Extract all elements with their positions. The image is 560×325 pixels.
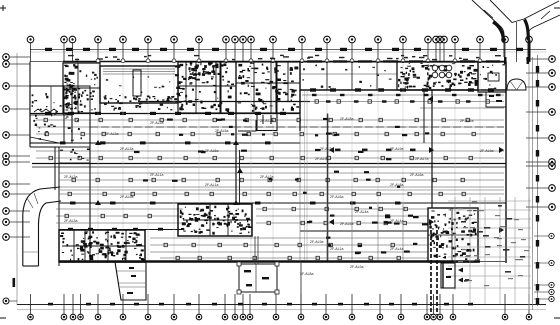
svg-text:2F-AL9a: 2F-AL9a: [310, 240, 323, 244]
protruding room below wall right: [441, 263, 455, 288]
grid bubble T19: [425, 36, 432, 43]
grid bubble T24: [477, 36, 484, 43]
left dimension line: [16, 53, 18, 305]
interior middle double wall y163: [32, 163, 506, 165]
grid bubble B6: [120, 314, 126, 320]
lower hall column lines: [327, 204, 403, 260]
grid bubble B1: [28, 314, 34, 320]
grid bubble R9: [549, 204, 556, 211]
grid bubble B8: [171, 314, 177, 320]
grid bubble R8: [549, 185, 556, 192]
top dimension line: [30, 49, 546, 51]
grid bubble T15: [324, 36, 331, 43]
top-left equipment rooms A: [63, 63, 100, 113]
svg-text:2F-AL9a: 2F-AL9a: [390, 147, 403, 151]
left stair block: [64, 86, 90, 143]
svg-text:2F-AL1a: 2F-AL1a: [150, 173, 163, 177]
grid bubble T23: [452, 36, 459, 43]
interior wall y143: [32, 142, 300, 144]
svg-text:2F-AL6a: 2F-AL6a: [410, 173, 423, 177]
grid bubble L12: [3, 234, 10, 241]
svg-text:2F-AL9a: 2F-AL9a: [315, 157, 328, 161]
grid bubble B13: [247, 314, 253, 320]
bottom dimension line: [17, 304, 546, 306]
column grid lines: [98, 63, 480, 260]
interior wall x432: [431, 90, 433, 208]
svg-text:2F-AL2a: 2F-AL2a: [460, 119, 473, 123]
wall y203 dashes: [70, 202, 401, 205]
top-left large hall B: [100, 66, 178, 103]
tiny annotation labels: [64, 117, 493, 276]
fan circles: [432, 65, 452, 78]
stair N marks: [244, 270, 269, 286]
scattered conduit marks in halls: [134, 118, 429, 254]
wall y143 dashes: [60, 141, 271, 144]
grid bubble T9: [223, 36, 230, 43]
center-bottom dense rooms L: [178, 204, 252, 236]
svg-text:2F-AL3a: 2F-AL3a: [64, 219, 77, 223]
grid bubble L7: [3, 159, 10, 166]
grid bubble B25: [526, 314, 532, 320]
building left wall upper: [29, 62, 31, 148]
grid bubble B20: [424, 314, 430, 320]
top dimension text dashes: [45, 48, 523, 51]
interior wall x327: [327, 114, 329, 262]
grid bubble B3: [70, 314, 76, 320]
svg-text:2F-AL4a: 2F-AL4a: [390, 219, 403, 223]
room protruding below D: [257, 114, 277, 131]
grid bubble L10: [3, 208, 10, 215]
grid bubble B9: [196, 314, 202, 320]
svg-text:2F-AL5a: 2F-AL5a: [215, 129, 228, 133]
grid bubble B23: [450, 314, 456, 320]
left dimension tick: [13, 278, 16, 287]
interior wall y229 left: [59, 229, 183, 231]
svg-text:2F-AL5a: 2F-AL5a: [340, 222, 353, 226]
grid bubble L13: [3, 298, 9, 304]
grid bubble T8: [196, 36, 203, 43]
grid bubble T12: [248, 36, 255, 43]
interior wall x236 duct pair: [235, 114, 237, 206]
grid bubble L4: [3, 106, 10, 113]
svg-text:2F-AL3a: 2F-AL3a: [120, 147, 133, 151]
grid bubble T18: [400, 36, 407, 43]
top strip rooms E: [300, 62, 397, 90]
svg-text:2F-AL7a: 2F-AL7a: [415, 157, 428, 161]
svg-text:2F-AL4a: 2F-AL4a: [355, 210, 368, 214]
H bottom slant: [30, 137, 59, 143]
grid bubble T2: [61, 36, 68, 43]
grid bubble B24: [502, 314, 508, 320]
grid bubble B18: [377, 314, 383, 320]
interior wall x90: [89, 114, 91, 262]
grid bubble R3: [549, 84, 556, 91]
svg-text:2F-AL2a: 2F-AL2a: [150, 121, 163, 125]
grid bubble R2: [549, 70, 556, 77]
left room I: [59, 147, 90, 163]
stair block N: [239, 264, 277, 292]
grid bubble L11: [3, 219, 10, 226]
right area verticals below: [470, 290, 529, 310]
wall y113 dashes: [45, 112, 286, 115]
corner rooms G: [478, 62, 506, 92]
grid bubble L8: [3, 181, 10, 188]
grid bubble B17: [349, 314, 355, 320]
svg-text:2F-AL9a: 2F-AL9a: [350, 265, 363, 269]
grid bubble T25: [502, 36, 509, 43]
grid bubble L5: [3, 132, 10, 139]
svg-text:2F-AL8a: 2F-AL8a: [300, 272, 313, 276]
grid bubble B14: [273, 314, 279, 320]
svg-text:2F-AL1a: 2F-AL1a: [330, 247, 343, 251]
grid bubble R7: [549, 163, 556, 170]
grid bubble T7: [171, 36, 178, 43]
grid bubble B16: [323, 314, 329, 320]
grid bubble R1: [549, 56, 556, 63]
building bottom wall: [59, 260, 480, 262]
grid bubble T4: [95, 36, 102, 43]
door swing triangles: [95, 96, 504, 233]
grid bubble R6: [549, 159, 556, 166]
svg-text:2F-AL3a: 2F-AL3a: [64, 175, 77, 179]
bottom dimension text dashes: [48, 303, 473, 306]
grid bubble T10: [232, 36, 239, 43]
svg-text:2F-AL3a: 2F-AL3a: [105, 132, 118, 136]
marks row y150 right: [335, 149, 416, 152]
interior wall x300 upper: [299, 62, 301, 132]
grid bubble B19: [398, 314, 404, 320]
interior wall y231 right: [300, 230, 428, 232]
wall y90 dashes: [310, 88, 494, 91]
grid bubble L9: [3, 191, 10, 198]
building top wall: [63, 61, 506, 63]
grid bubble B15: [298, 314, 304, 320]
grid bubble T26: [526, 36, 533, 43]
light parking grid P: [448, 197, 531, 290]
grid bubble B7: [145, 314, 151, 320]
svg-text:2F-AL8a: 2F-AL8a: [390, 183, 403, 187]
duct drop x424: [423, 90, 425, 143]
grid bubble T22: [441, 36, 448, 43]
left office rooms H: [30, 86, 72, 143]
svg-text:2F-AL8a: 2F-AL8a: [340, 117, 353, 121]
svg-text:2F-AL2a: 2F-AL2a: [260, 175, 273, 179]
grid bubble R4: [549, 109, 556, 116]
interior wall y101 corridor north: [140, 101, 310, 103]
svg-text:2F-AL9a: 2F-AL9a: [120, 195, 133, 199]
room label marks above top wall: [68, 55, 501, 61]
top wall thick segments: [307, 60, 500, 62]
interior wall y203: [59, 202, 506, 204]
bottom grid stubs: [31, 294, 530, 314]
grid bubble B4: [78, 314, 84, 320]
svg-text:2F-AL9a: 2F-AL9a: [480, 149, 493, 153]
corridor marks below B: [104, 102, 172, 110]
svg-text:2F-AL3a: 2F-AL3a: [320, 147, 333, 151]
top-middle rooms C: [178, 62, 236, 113]
parking grid dashes: [458, 201, 529, 286]
marks on rows below y90: [312, 94, 501, 103]
interior wall y113: [30, 113, 300, 115]
small room below G: [486, 92, 506, 107]
right dimension line: [537, 55, 539, 306]
grid bubble T3: [69, 36, 76, 43]
grid bubble T13: [270, 36, 277, 43]
trapezoid stair room below K: [115, 262, 146, 300]
svg-text:2F-AL6a: 2F-AL6a: [205, 149, 218, 153]
grid bubble T6: [145, 36, 152, 43]
grid bubble L6: [3, 153, 10, 160]
right-bottom dense rooms O: [428, 208, 478, 262]
grid bubble T21: [437, 36, 444, 43]
grid bubble L3: [3, 83, 10, 90]
entrance canopy right: [507, 79, 526, 90]
svg-text:2F-AL1a: 2F-AL1a: [205, 183, 218, 187]
Y-shaped driveway: [472, 0, 560, 62]
grid bubble T11: [240, 36, 247, 43]
grid bubble B22: [437, 314, 443, 320]
bottom-left dense rooms K: [59, 230, 145, 262]
riser column dashed lines: [431, 230, 437, 315]
grid bubble T5: [120, 36, 127, 43]
grid bubble B12: [240, 314, 246, 320]
interior wall y90 right: [300, 89, 506, 91]
building right wall: [505, 62, 507, 264]
right grid stubs: [526, 59, 549, 207]
grid bubble T17: [375, 36, 382, 43]
svg-text:2F-AL2a: 2F-AL2a: [260, 119, 273, 123]
parking ramp walls: [23, 187, 61, 266]
grid bubble R5: [549, 135, 556, 142]
grid bubble B21: [431, 314, 437, 320]
ramp curve ticks: [27, 193, 38, 208]
wall y229 dashes: [68, 228, 163, 231]
upper hall beam lines: [36, 95, 504, 194]
grid bubble L1: [3, 54, 10, 61]
grid bubble T14: [299, 36, 306, 43]
svg-text:2F-AL6a: 2F-AL6a: [330, 195, 343, 199]
top-middle rooms D: [236, 62, 300, 113]
svg-text:2F-AL4a: 2F-AL4a: [390, 247, 403, 251]
grid bubble B10: [222, 314, 228, 320]
grid stub x301 below wall: [300, 263, 302, 304]
fan room block F: [397, 62, 478, 90]
grid bubble B5: [95, 314, 101, 320]
lower hall beam lines: [56, 209, 428, 258]
parking grid dark labels: [461, 205, 525, 282]
right dimension dashes: [536, 66, 539, 305]
grid bubble T20: [433, 36, 440, 43]
building left wall mid step: [54, 147, 56, 190]
double column line x305: [305, 90, 308, 260]
right outer double line: [528, 57, 530, 310]
dashed service line y127: [90, 126, 504, 128]
lower-right small bubbles: [534, 233, 554, 238]
grid bubble T1: [27, 36, 34, 43]
ramp rung: [23, 251, 39, 253]
zigzag symbol: [34, 109, 58, 112]
service line y190: [59, 189, 504, 191]
left grid stubs: [9, 57, 30, 237]
top grid stubs: [31, 43, 530, 62]
grid bubble B11: [232, 314, 238, 320]
corridor stub above stair N: [255, 236, 258, 264]
grid bubble B2: [61, 314, 67, 320]
stub base circles: [96, 59, 482, 63]
grid bubble L2: [3, 61, 10, 68]
grid bubble T16: [349, 36, 356, 43]
